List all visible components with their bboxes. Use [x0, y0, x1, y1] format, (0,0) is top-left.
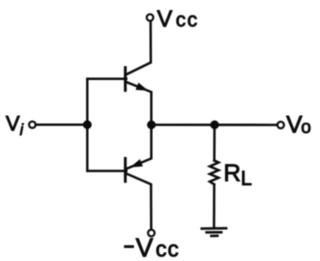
terminal -VCC — [148, 230, 155, 237]
svg-text:R: R — [224, 160, 241, 187]
ground — [201, 228, 228, 236]
svg-text:V: V — [6, 112, 20, 135]
transistor Q2 base bar — [124, 158, 127, 181]
svg-text:i: i — [20, 122, 24, 139]
transistor Q2 emitter — [126, 125, 151, 169]
wire to resistor — [213, 125, 216, 161]
terminal VCC — [147, 14, 154, 21]
wire Q2 base — [88, 170, 126, 172]
svg-text:V: V — [286, 112, 302, 139]
terminal Vo — [277, 122, 284, 129]
transistor Q1 emitter arrow — [136, 83, 147, 90]
svg-text:cc: cc — [156, 237, 180, 261]
wire Vi input — [36, 123, 87, 125]
resistor RL — [210, 161, 219, 185]
node RL junction — [211, 121, 219, 129]
transistor Q2 emitter arrow — [132, 160, 143, 167]
wire VCC to Q1 collector — [126, 22, 151, 75]
minus sign of -VCC label — [124, 245, 134, 248]
svg-text:o: o — [301, 117, 311, 137]
transistor Q2 collector — [126, 174, 151, 229]
wire resistor to ground — [213, 184, 216, 227]
svg-text:V: V — [157, 5, 173, 31]
wire Q1 base — [88, 78, 126, 80]
transistor Q1 base bar — [124, 68, 127, 91]
node output junction — [148, 121, 156, 129]
svg-text:cc: cc — [176, 9, 199, 31]
svg-text:L: L — [241, 168, 252, 190]
transistor Q1 emitter — [126, 82, 151, 125]
node input junction — [83, 121, 91, 129]
wire output horizontal — [151, 124, 276, 126]
terminal Vi — [29, 121, 36, 128]
svg-text:V: V — [136, 232, 154, 261]
wire input vertical — [86, 79, 88, 171]
